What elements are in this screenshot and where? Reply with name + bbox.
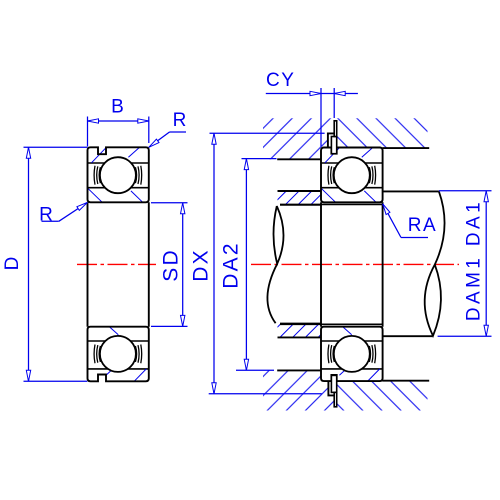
svg-text:CY: CY bbox=[266, 70, 295, 91]
hatch outer ring bottom bbox=[339, 369, 346, 375]
left view bearing bbox=[88, 147, 149, 381]
hatch inner ring top bbox=[88, 188, 102, 202]
outer ring bottom section outline with snap ring groove bbox=[321, 327, 383, 381]
housing bottom-right section hatch bbox=[337, 381, 428, 411]
raceway shoulder arcs bottom left bbox=[94, 345, 100, 364]
raceway lines bottom section bbox=[88, 340, 149, 342]
hatch inner ring top bbox=[321, 188, 335, 202]
ball top bbox=[100, 157, 136, 193]
housing snap-ring recess step top bbox=[328, 133, 334, 147]
shaft break left bbox=[267, 206, 283, 323]
dimension CY bbox=[266, 70, 358, 147]
raceway shoulder arcs top right bbox=[135, 166, 141, 185]
shaft shoulder bottom line right bbox=[382, 335, 432, 337]
snap ring top bbox=[331, 121, 336, 154]
centerline left view bbox=[77, 263, 156, 265]
hatch outer ring top bbox=[325, 148, 340, 163]
dimension B bbox=[88, 97, 149, 147]
raceway shoulder arcs bottom right bbox=[369, 345, 375, 364]
svg-text:DA2: DA2 bbox=[219, 241, 242, 288]
svg-text:SD: SD bbox=[160, 248, 183, 282]
outer/inner raceway lines top section bbox=[88, 162, 149, 164]
svg-text:DAM1 DA1: DAM1 DA1 bbox=[464, 199, 485, 321]
dimension SD bbox=[151, 203, 188, 327]
shaft abutment sleeve top hatch bbox=[278, 191, 321, 205]
raceway shoulder arcs top left bbox=[328, 166, 334, 185]
hatch outer ring top bbox=[92, 148, 107, 163]
housing bore line right of bearing bottom bbox=[382, 380, 429, 382]
radius leader RA bbox=[383, 204, 438, 238]
housing shoulder bore line top-left bbox=[277, 158, 321, 160]
radius leader R top bbox=[149, 110, 187, 147]
dimension D bbox=[2, 147, 87, 381]
housing shoulder bore line bottom-left bbox=[277, 369, 321, 371]
centerline right view bbox=[251, 263, 459, 265]
shaft abutment sleeve bottom hatch bbox=[278, 323, 321, 337]
outer ring top section outline with snap ring groove bbox=[321, 148, 383, 203]
sleeve top outer line bbox=[278, 190, 321, 192]
outer ring top section outline with snap ring notch bbox=[88, 147, 149, 202]
svg-text:DX: DX bbox=[190, 248, 213, 282]
svg-text:R: R bbox=[39, 205, 53, 226]
inner ring side face right bbox=[382, 202, 384, 326]
raceway shoulder arcs bottom right bbox=[135, 345, 141, 364]
shaft seat line top bbox=[280, 203, 383, 205]
ball bottom bbox=[100, 336, 136, 372]
dimension DX bbox=[190, 133, 325, 394]
svg-text:D: D bbox=[2, 257, 23, 271]
shaft shoulder top line right bbox=[382, 190, 439, 192]
inner ring side face right bbox=[148, 202, 150, 326]
hatch inner ring bottom bbox=[343, 327, 351, 334]
sleeve bottom bore line bbox=[280, 322, 321, 324]
inner ring side face left bbox=[320, 202, 322, 326]
raceway shoulder arcs top left bbox=[94, 166, 100, 185]
housing bottom-left section hatch bbox=[263, 370, 334, 410]
shaft break right bbox=[425, 191, 445, 335]
svg-text:B: B bbox=[111, 97, 124, 118]
radius leader R bottom-left bbox=[39, 203, 87, 226]
hatch inner ring bottom bbox=[110, 327, 118, 334]
snap ring bottom bbox=[331, 375, 336, 406]
raceway shoulder arcs bottom left bbox=[328, 345, 334, 364]
housing top-right section hatch bbox=[337, 118, 428, 148]
dimension DAM1 DA1 bbox=[438, 191, 492, 336]
housing snap-ring recess step bottom bbox=[328, 381, 334, 396]
inner ring side face left bbox=[87, 202, 89, 326]
shaft seat line bottom bbox=[280, 323, 383, 325]
right view bearing bbox=[321, 148, 383, 382]
dimension DA2 bbox=[219, 159, 276, 371]
housing bore line right of bearing top bbox=[382, 147, 429, 149]
ball top bbox=[334, 157, 370, 193]
outer ring bottom section outline with snap ring notch bbox=[88, 327, 149, 382]
svg-text:R: R bbox=[173, 110, 187, 131]
housing top-left section hatch bbox=[263, 118, 334, 159]
sleeve top bore line bbox=[280, 204, 321, 206]
ball bottom bbox=[334, 336, 370, 372]
sleeve bottom outer line bbox=[278, 336, 321, 338]
svg-text:RA: RA bbox=[408, 215, 437, 236]
raceway shoulder arcs top right bbox=[369, 166, 375, 185]
hatch outer ring bottom bbox=[106, 369, 113, 375]
